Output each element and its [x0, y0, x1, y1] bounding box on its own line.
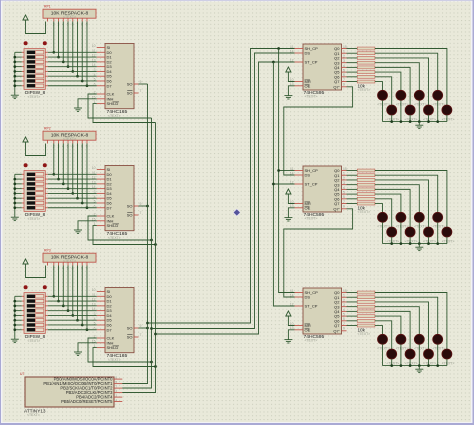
svg-text:<TEXT>: <TEXT>: [305, 95, 318, 99]
U6 Q5 pin 5: [342, 315, 347, 317]
svg-text:7: 7: [343, 322, 345, 326]
wire LED T3 cathode to rail: [418, 344, 420, 365]
junction SO bus merge A: [146, 322, 149, 325]
wire MCU net C to U4 ST_CP: [156, 62, 295, 334]
U5 DS pin 14: [295, 174, 304, 176]
respack RP2 pin 3: [58, 140, 60, 143]
wire +V to U6 MR: [288, 316, 294, 326]
wire DSW3 row 3 left pin to rail: [22, 305, 24, 307]
svg-text:1: 1: [343, 50, 345, 54]
wire RP1 pin 8 to switch row 7: [81, 22, 83, 81]
wire DSW3 row 3 to U3 D2: [45, 305, 48, 307]
junction clock bus merge B: [150, 327, 153, 330]
svg-text:4: 4: [94, 73, 96, 77]
wire LED B2 cathode to rail: [409, 115, 411, 122]
wire U6 Q0 to resistor: [347, 292, 358, 294]
svg-text:Q7: Q7: [334, 201, 340, 206]
wire ST_CP bus to U5: [273, 183, 294, 185]
U4 Q0 pin 15: [342, 48, 347, 50]
wire MCU net A to U4 SH_CP: [148, 49, 295, 324]
U2 INH pin 15: [97, 220, 105, 222]
wire DSW2 row 6 to U2 D5: [45, 197, 48, 199]
resistor RN1.2 10k: [357, 56, 375, 59]
svg-text:12: 12: [92, 54, 96, 58]
wire LED B3 cathode to rail: [428, 237, 430, 244]
U3 SO pin 9: [134, 327, 139, 329]
LED D2: [396, 90, 406, 100]
clock bus vertical: [122, 118, 151, 388]
U5 Q1 pin 1: [342, 174, 347, 176]
LED D20: [433, 334, 443, 344]
wire U5 Q0 to resistor: [347, 170, 358, 172]
wire RP2 pin 4 to switch row 3: [62, 144, 64, 184]
SH_CP bus vertical to U5 U6: [279, 49, 295, 293]
svg-text:<TEXT>: <TEXT>: [358, 210, 371, 214]
wire U6 Q7 to resistor: [347, 325, 358, 327]
respack RP2 pin 9: [86, 140, 88, 143]
LED D7: [424, 105, 434, 115]
U3 CLK pin 2: [97, 337, 105, 339]
U7 pin 1 PB5: [114, 401, 122, 403]
wire DSW3 row 4 to U3 D3: [45, 310, 48, 312]
U7 pin 3 PB4: [114, 396, 122, 398]
svg-text:<TEXT>: <TEXT>: [442, 239, 455, 243]
wire U6 Q5 to resistor: [347, 315, 358, 317]
U5 SH_CP pin 11: [295, 170, 304, 172]
svg-text:<TEXT>: <TEXT>: [63, 137, 76, 141]
svg-text:<TEXT>: <TEXT>: [63, 15, 76, 19]
svg-text:Q7': Q7': [333, 328, 339, 333]
svg-text:Q7': Q7': [333, 206, 339, 211]
svg-text:3: 3: [94, 190, 96, 194]
respack RP1 pin 8: [81, 18, 83, 21]
respack RP3 pin 5: [67, 262, 69, 265]
svg-text:10: 10: [92, 44, 96, 48]
wire U7 PB2 to clock bus: [122, 387, 151, 389]
U6 Q7 pin 7: [342, 325, 347, 327]
svg-text:<TEXT>: <TEXT>: [108, 114, 121, 118]
svg-text:RP1: RP1: [44, 5, 51, 9]
wire U4 Q7' cascade to U5 DS: [284, 87, 353, 175]
origin marker: [233, 209, 240, 216]
wire U4 OE to ground: [288, 86, 294, 96]
wire U3 SH/LD to load bus: [93, 348, 156, 367]
wire U4 Q4 to resistor: [347, 66, 358, 68]
respack RP2 pin 2: [53, 140, 55, 143]
svg-text:ST_CP: ST_CP: [305, 304, 318, 309]
wire DSW2 row 2 left pin to rail: [22, 178, 24, 180]
resistor RN2.2 10k: [357, 178, 375, 181]
wire U5 Q6 to resistor: [347, 198, 358, 200]
LED D13: [387, 227, 397, 237]
wire LED T2 cathode to rail: [400, 344, 402, 365]
wire U2 INH to ground: [78, 221, 97, 230]
LED D10: [396, 212, 406, 222]
svg-text:9: 9: [140, 324, 142, 328]
resistor RN2.4 10k: [357, 188, 375, 191]
U5 Q0 pin 15: [342, 170, 347, 172]
wire RP3 pin 7 to switch row 6: [77, 266, 79, 321]
U6 Q3 pin 3: [342, 306, 347, 308]
svg-text:<TEXT>: <TEXT>: [396, 103, 409, 107]
dip switch DSW2 DIPSW_8: [24, 163, 28, 167]
wire LED T4 cathode to rail: [437, 100, 439, 121]
wire RP3 pin 4 to switch row 3: [62, 266, 64, 306]
wire LED T1 cathode to rail: [382, 100, 384, 121]
U4 Q6 pin 6: [342, 76, 347, 78]
wire power arrow to RP2 pin1: [26, 142, 46, 156]
U1 INH pin 15: [97, 98, 105, 100]
svg-text:13: 13: [92, 302, 96, 306]
svg-text:ST_CP: ST_CP: [305, 60, 318, 65]
wire DSW2 row 3 left pin to rail: [22, 183, 24, 185]
wire DSW1 row 6 left pin to rail: [22, 75, 24, 77]
respack RP2 pin 6: [72, 140, 74, 143]
U6 ST_CP pin 12: [295, 305, 304, 307]
wire U3 INH to ground: [78, 343, 97, 352]
U5 MR pin 10: [295, 203, 304, 205]
svg-text:D7: D7: [107, 83, 113, 88]
wire DSW3 row 8 to U3 D7: [45, 329, 48, 331]
U4 MR pin 10: [295, 81, 304, 83]
LED cathode rail group 1: [383, 121, 447, 123]
wire RP2 pin 7 to switch row 6: [77, 144, 79, 199]
resistor RN3.6 10k: [357, 319, 375, 322]
U6 MR pin 10: [295, 325, 304, 327]
power +V arrow for U4 MR: [286, 67, 291, 72]
LED D18: [396, 334, 406, 344]
U5 Q7 pin 7: [342, 203, 347, 205]
wire DSW3 row 4 left pin to rail: [22, 310, 24, 312]
svg-text:DS: DS: [305, 51, 311, 56]
wire DSW2 row 3 to U2 D2: [45, 183, 48, 185]
wire LED B1 cathode to rail: [391, 359, 393, 366]
U4 OE pin 13: [295, 85, 304, 87]
LED D11: [414, 212, 424, 222]
svg-text:9: 9: [343, 327, 345, 331]
LED D22: [405, 349, 415, 359]
wire LED B4 cathode to rail: [446, 115, 448, 122]
svg-text:5: 5: [94, 78, 96, 82]
wire RP1 pin 9 to switch row 8: [86, 22, 88, 86]
respack RP1 pin 1: [47, 18, 49, 21]
svg-text:15: 15: [343, 289, 347, 293]
wire DSW1 row 5 left pin to rail: [22, 70, 24, 72]
wire DSW2 row 7 to U2 D6: [45, 202, 48, 204]
respack RP1 pin 6: [72, 18, 74, 21]
wire resistor 3 to LED at x419: [375, 63, 419, 91]
wire DSW3 row 7 to U3 D6: [45, 324, 48, 326]
U3 /SO pin 7: [134, 336, 139, 338]
wire DSW1 row 3 to U1 D2: [45, 61, 48, 63]
LED D12: [433, 212, 443, 222]
wire DSW1 row 1 to U1 D0: [45, 51, 48, 53]
U2 CLK pin 2: [97, 215, 105, 217]
ground symbol under U5 OE: [284, 217, 292, 219]
svg-text:<TEXT>: <TEXT>: [387, 117, 400, 121]
resistor RN1.5 10k: [357, 71, 375, 74]
respack RP2 pin 8: [81, 140, 83, 143]
ground symbol under LED rail group 1: [418, 122, 420, 126]
svg-text:Q7: Q7: [334, 79, 340, 84]
wire DSW1 row 5 to U1 D4: [45, 70, 48, 72]
wire DSW1 row 6 to U1 D5: [45, 75, 48, 77]
U6 DS pin 14: [295, 296, 304, 298]
LED cathode rail group 2: [383, 243, 447, 245]
U3 SH/LD pin 1: [97, 347, 105, 349]
wire +V to U5 MR: [288, 194, 294, 204]
wire LED T1 cathode to rail: [382, 222, 384, 243]
shift/load bus vertical: [122, 123, 155, 393]
wire resistor 5 to LED at x400: [375, 72, 401, 90]
U5 ST_CP pin 12: [295, 183, 304, 185]
U4 SH_CP pin 11: [295, 48, 304, 50]
wire DSW1 row 7 to U1 D6: [45, 80, 48, 82]
wire RP3 pin 2 to switch row 1: [53, 266, 55, 297]
svg-text:<TEXT>: <TEXT>: [305, 217, 318, 221]
wire U2 SH/LD to load bus: [93, 226, 156, 245]
wire DSW2 row 6 left pin to rail: [22, 197, 24, 199]
wire DSW1 row 2 left pin to rail: [22, 56, 24, 58]
wire resistor 4 to LED at x410: [375, 311, 410, 349]
U6 Q2 pin 2: [342, 301, 347, 303]
resistor RN2.7 10k: [357, 202, 375, 205]
svg-text:RP3: RP3: [44, 249, 51, 253]
junction load bus merge C: [154, 333, 157, 336]
wire RP2 pin 9 to switch row 8: [86, 144, 88, 208]
wire power arrow to RP3 pin1: [26, 264, 46, 278]
wire LED T2 cathode to rail: [400, 100, 402, 121]
wire U6 Q2 to resistor: [347, 301, 358, 303]
LED D17: [378, 334, 388, 344]
ground symbol under DSW3 rail: [11, 338, 19, 340]
resistor RN2.3 10k: [357, 183, 375, 186]
wire DSW3 row 6 to U3 D5: [45, 319, 48, 321]
svg-text:5: 5: [343, 191, 345, 195]
U4 Q4 pin 4: [342, 66, 347, 68]
wire LED B2 cathode to rail: [409, 359, 411, 366]
wire resistor 3 to LED at x419: [375, 307, 419, 335]
svg-text:<TEXT>: <TEXT>: [377, 225, 390, 229]
wire resistor 6 to LED at x391: [375, 199, 392, 227]
LED D16: [442, 227, 452, 237]
respack RP3 pin 6: [72, 262, 74, 265]
svg-text:14: 14: [92, 63, 96, 67]
wire DSW1 row 7 left pin to rail: [22, 80, 24, 82]
svg-text:10: 10: [92, 288, 96, 292]
U3 INH pin 15: [97, 342, 105, 344]
respack RP3 pin 8: [81, 262, 83, 265]
wire resistor 7 to LED at x382: [375, 82, 383, 91]
svg-text:<TEXT>: <TEXT>: [423, 361, 436, 365]
svg-text:9: 9: [343, 205, 345, 209]
wire U5 OE to ground: [288, 208, 294, 218]
wire DSW1 row 8 to U1 D7: [45, 85, 48, 87]
U5 Q3 pin 3: [342, 184, 347, 186]
wire LED B2 cathode to rail: [409, 237, 411, 244]
svg-text:<TEXT>: <TEXT>: [405, 117, 418, 121]
wire resistor 1 to LED at x437: [375, 53, 438, 90]
wire U3 SO to serial bus: [139, 327, 148, 329]
svg-text:<TEXT>: <TEXT>: [433, 103, 446, 107]
U1 CLK pin 2: [97, 93, 105, 95]
svg-text:<TEXT>: <TEXT>: [358, 88, 371, 92]
respack RP2 pin 1: [47, 140, 49, 143]
svg-text:<TEXT>: <TEXT>: [63, 259, 76, 263]
wire U6 Q3 to resistor: [347, 306, 358, 308]
ground symbol under LED rail group 2: [418, 244, 420, 248]
svg-text:Q7': Q7': [333, 84, 339, 89]
LED D15: [424, 227, 434, 237]
svg-text:1: 1: [343, 172, 345, 176]
wire RP2 pin 3 to switch row 2: [58, 144, 60, 180]
wire U5 Q7' cascade to U6 DS: [284, 209, 353, 297]
svg-text:11: 11: [92, 293, 96, 297]
svg-text:1: 1: [343, 294, 345, 298]
wire MCU net B to U4 DS: [152, 53, 295, 329]
wire U1 CLK to clock bus: [88, 94, 152, 118]
wire LED T3 cathode to rail: [418, 100, 420, 121]
wire DSW3 row 7 left pin to rail: [22, 324, 24, 326]
respack RP3 pin 2: [53, 262, 55, 265]
shift register U1 74HC165: [105, 44, 134, 109]
svg-text:<TEXT>: <TEXT>: [423, 117, 436, 121]
wire DSW1 row 3 left pin to rail: [22, 61, 24, 63]
wire RP1 pin 4 to switch row 3: [62, 22, 64, 62]
wire RP3 pin 9 to switch row 8: [86, 266, 88, 330]
wire U7 PB1 to serial bus: [122, 383, 147, 385]
wire resistor 6 to LED at x391: [375, 321, 392, 349]
U2 SO pin 9: [134, 205, 139, 207]
wire U5 Q4 to resistor: [347, 188, 358, 190]
svg-text:<TEXT>: <TEXT>: [442, 361, 455, 365]
svg-text:5: 5: [343, 313, 345, 317]
svg-text:14: 14: [92, 307, 96, 311]
svg-text:9: 9: [140, 202, 142, 206]
wire RP2 pin 5 to switch row 4: [67, 144, 69, 189]
wire resistor 4 to LED at x410: [375, 67, 410, 105]
wire DSW1 row 8 left pin to rail: [22, 85, 24, 87]
LED D4: [433, 90, 443, 100]
resistor RN3.1 10k: [357, 296, 375, 299]
wire LED B3 cathode to rail: [428, 359, 430, 366]
wire U4 Q5 to resistor: [347, 71, 358, 73]
LED cathode rail group 3: [383, 365, 447, 367]
wire DSW2 row 5 to U2 D4: [45, 192, 48, 194]
U2 SH/LD pin 1: [97, 225, 105, 227]
wire U7 PB3 to load bus: [122, 392, 155, 394]
wire RP2 pin 6 to switch row 5: [72, 144, 74, 194]
wire DSW1 row 4 left pin to rail: [22, 66, 24, 68]
svg-text:4: 4: [343, 186, 345, 190]
wire resistor 0 to LED at x446: [375, 49, 447, 106]
svg-text:13: 13: [92, 180, 96, 184]
svg-text:9: 9: [343, 83, 345, 87]
ground symbol under U4 OE: [284, 95, 292, 97]
wire resistor 1 to LED at x437: [375, 297, 438, 334]
wire resistor 7 to LED at x382: [375, 204, 383, 213]
junction SH_CP bus tap: [277, 47, 280, 50]
svg-text:<TEXT>: <TEXT>: [28, 339, 41, 343]
wire RP2 pin 2 to switch row 1: [53, 144, 55, 175]
ground symbol under DSW2 rail: [11, 216, 19, 218]
svg-text:SO: SO: [127, 335, 133, 340]
resistor RN3.7 10k: [357, 324, 375, 327]
svg-text:DS: DS: [305, 295, 311, 300]
svg-text:5: 5: [94, 200, 96, 204]
U5 Q7' pin 9: [342, 208, 347, 210]
ground rail left of DSW1: [14, 52, 16, 95]
wire DSW2 row 4 to U2 D3: [45, 188, 48, 190]
wire resistor 0 to LED at x446: [375, 171, 447, 228]
power +V arrow group 3: [23, 259, 28, 264]
wire LED B1 cathode to rail: [391, 237, 393, 244]
resistor RN1.6 10k: [357, 75, 375, 78]
svg-text:<TEXT>: <TEXT>: [387, 239, 400, 243]
wire RP2 pin 8 to switch row 7: [81, 144, 83, 203]
svg-text:<TEXT>: <TEXT>: [377, 347, 390, 351]
junction ST_CP bus tap: [272, 61, 275, 64]
wire LED B1 cathode to rail: [391, 115, 393, 122]
respack RP1 pin 5: [67, 18, 69, 21]
respack RP1 pin 7: [77, 18, 79, 21]
respack RP2 pin 7: [77, 140, 79, 143]
svg-text:4: 4: [94, 195, 96, 199]
svg-text:4: 4: [94, 317, 96, 321]
wire LED T4 cathode to rail: [437, 222, 439, 243]
resistor RN1.7 10k: [357, 80, 375, 83]
wire U6 Q6 to resistor: [347, 320, 358, 322]
resistor RN2.0 10k: [357, 169, 375, 172]
wire DSW1 row 1 left pin to rail: [22, 51, 24, 53]
respack RP3 pin 4: [62, 262, 64, 265]
wire resistor 7 to LED at x382: [375, 326, 383, 335]
ground symbol under U3 INH: [74, 351, 82, 353]
svg-text:<TEXT>: <TEXT>: [27, 413, 40, 417]
svg-text:<TEXT>: <TEXT>: [433, 347, 446, 351]
wire U5 Q3 to resistor: [347, 184, 358, 186]
ground symbol under U2 INH: [74, 229, 82, 231]
wire LED B4 cathode to rail: [446, 237, 448, 244]
LED D24: [442, 349, 452, 359]
resistor RN3.4 10k: [357, 310, 375, 313]
wire RP3 pin 3 to switch row 2: [58, 266, 60, 302]
U6 Q0 pin 15: [342, 292, 347, 294]
U1 SO pin 9: [134, 83, 139, 85]
wire U5 Q2 to resistor: [347, 179, 358, 181]
wire resistor 6 to LED at x391: [375, 77, 392, 105]
svg-text:2: 2: [343, 298, 345, 302]
svg-text:<TEXT>: <TEXT>: [28, 217, 41, 221]
respack RP3 pin 9: [86, 262, 88, 265]
U7 pin 5 PB0: [114, 378, 122, 380]
svg-text:DS: DS: [305, 173, 311, 178]
svg-text:9: 9: [140, 80, 142, 84]
svg-text:<TEXT>: <TEXT>: [405, 239, 418, 243]
wire resistor 5 to LED at x400: [375, 316, 401, 334]
ground rail left of DSW2: [14, 174, 16, 217]
wire DSW2 row 8 to U2 D7: [45, 207, 48, 209]
U4 Q5 pin 5: [342, 71, 347, 73]
LED D14: [405, 227, 415, 237]
svg-text:<TEXT>: <TEXT>: [442, 117, 455, 121]
wire DSW1 row 4 to U1 D3: [45, 66, 48, 68]
wire U1 INH to ground: [78, 99, 97, 108]
LED D19: [414, 334, 424, 344]
svg-text:14: 14: [92, 185, 96, 189]
wire +V to U4 MR: [288, 72, 294, 82]
U1 SH/LD pin 1: [97, 103, 105, 105]
